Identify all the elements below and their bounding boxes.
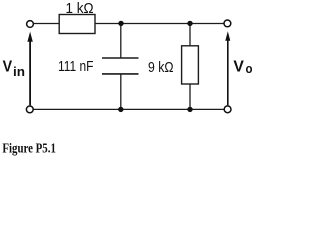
svg-text:V: V [233, 58, 244, 75]
svg-text:o: o [246, 62, 253, 76]
svg-text:9 kΩ: 9 kΩ [148, 59, 174, 76]
svg-text:Figure P5.1: Figure P5.1 [2, 141, 56, 156]
svg-text:1 kΩ: 1 kΩ [66, 0, 94, 17]
svg-text:111 nF: 111 nF [58, 58, 94, 75]
svg-text:V: V [3, 58, 13, 75]
svg-text:in: in [13, 65, 25, 79]
